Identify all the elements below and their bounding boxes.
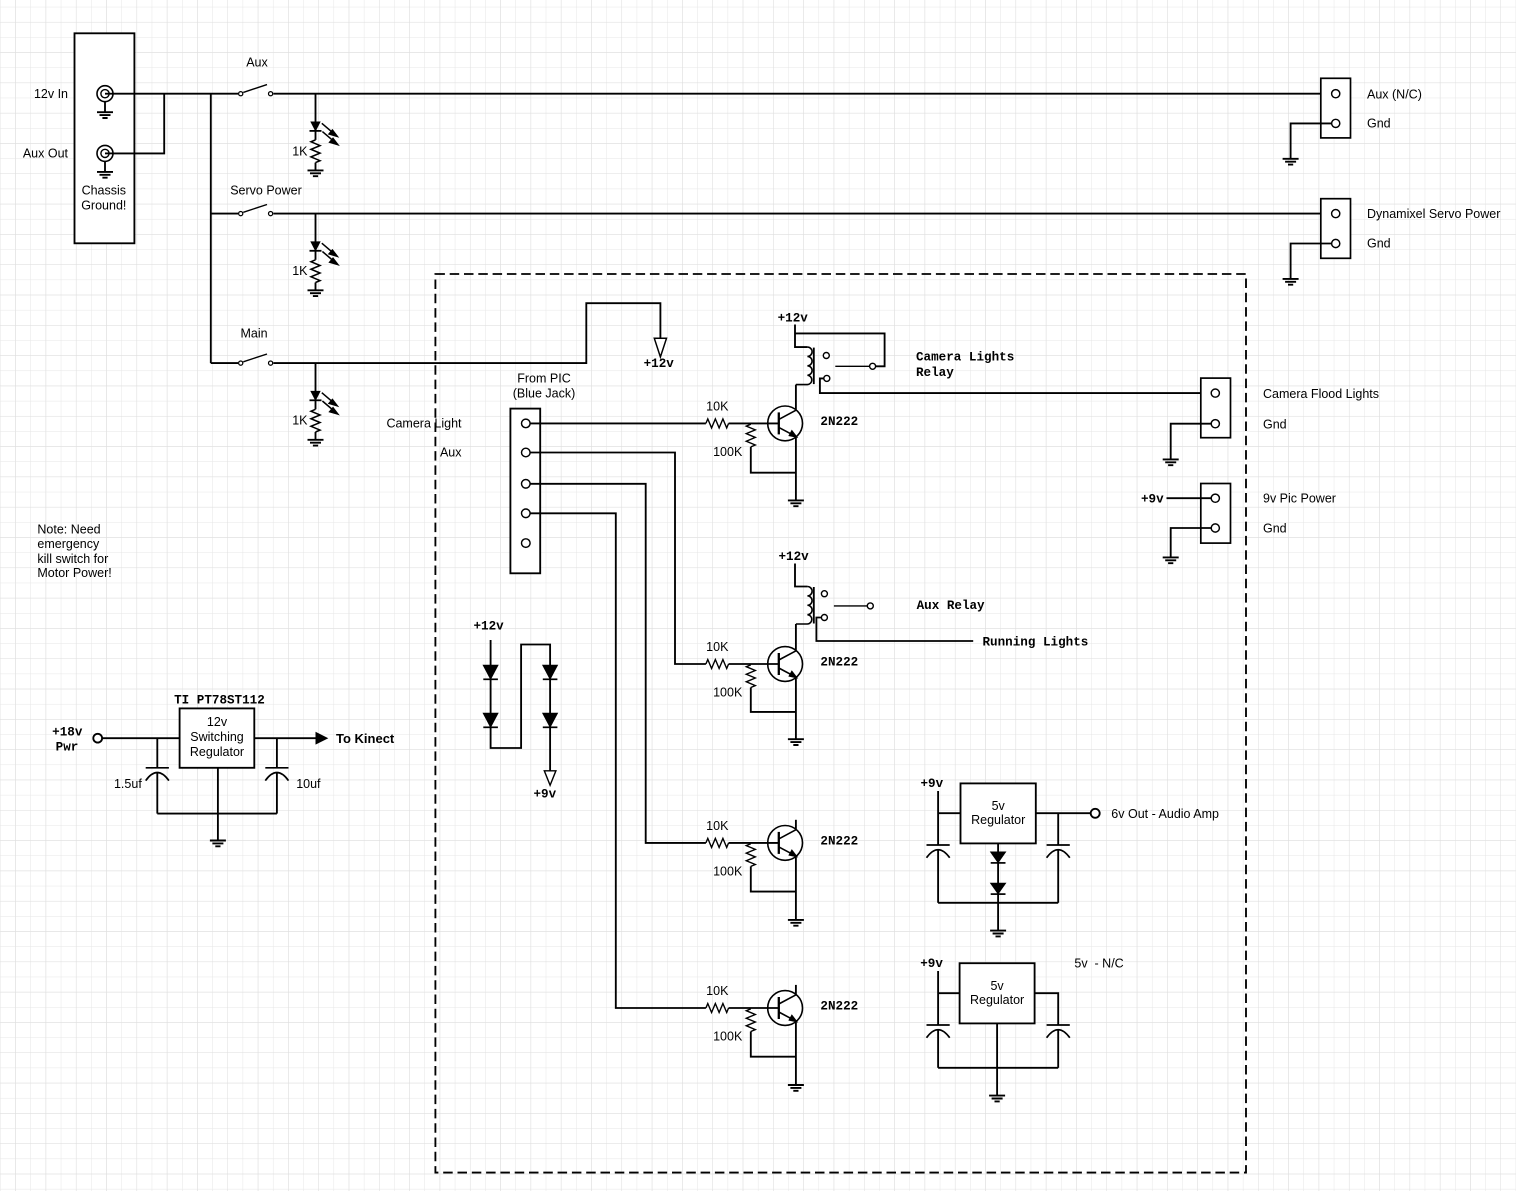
svg-text:100K: 100K — [713, 445, 743, 459]
capacitor C3 in — [927, 1025, 950, 1038]
wire 12v bus left — [112, 93, 238, 95]
svg-text:Ground!: Ground! — [81, 199, 126, 213]
wire U2 output — [1036, 812, 1091, 814]
wire R6 to Q3 emitter — [751, 866, 796, 891]
terminal +18v Pwr — [93, 734, 102, 743]
connector J2 Dynamixel — [1321, 199, 1351, 259]
dashed control box — [435, 274, 1246, 1173]
capacitor C4 out — [1047, 1025, 1070, 1038]
wire Q1 emitter to ground — [795, 437, 797, 500]
relay RLY2 NC contact — [821, 591, 827, 597]
diode D9 — [991, 883, 1006, 894]
svg-text:10K: 10K — [706, 984, 729, 998]
terminal 6v Out — [1091, 809, 1100, 818]
wire servo bus — [211, 213, 238, 215]
wire J3 gnd — [1171, 424, 1216, 460]
pin J2-2 — [1332, 239, 1340, 247]
wire stub Aux Out center — [105, 152, 113, 154]
svg-text:9v Pic Power: 9v Pic Power — [1263, 492, 1336, 506]
connector J1 Aux (N/C) — [1321, 78, 1351, 138]
regulator U1 box TI PT78ST112 — [180, 708, 255, 767]
wire J2 gnd — [1291, 244, 1336, 279]
resistor R6 100K — [746, 844, 755, 867]
relay RLY2 NO contact — [821, 615, 827, 621]
svg-text:+12v: +12v — [473, 619, 504, 633]
wire U2 gnd center — [997, 843, 999, 902]
relay RLY2 coil — [796, 587, 812, 625]
svg-text:10K: 10K — [706, 640, 729, 654]
ground (Aux Out) — [97, 172, 113, 178]
regulator U3 box — [960, 963, 1035, 1023]
resistor R7 10K — [706, 1004, 729, 1013]
wire U1 gnd center — [217, 768, 219, 841]
pin J4-1 — [1211, 494, 1219, 502]
chassis box — [75, 33, 135, 243]
connector 12v In — [97, 86, 113, 102]
svg-text:+12v: +12v — [778, 312, 809, 326]
svg-text:Gnd: Gnd — [1263, 522, 1287, 536]
connector J3 Camera Flood Lights — [1201, 378, 1231, 438]
svg-text:Chassis: Chassis — [82, 184, 126, 198]
svg-text:Camera Flood Lights: Camera Flood Lights — [1263, 387, 1379, 401]
svg-text:+9v: +9v — [1141, 492, 1164, 506]
pin J4-2 — [1211, 524, 1219, 532]
svg-text:To Kinect: To Kinect — [336, 731, 395, 746]
wire stub 12v In center — [105, 93, 113, 95]
wire J1 gnd — [1291, 123, 1336, 158]
svg-text:Gnd: Gnd — [1263, 417, 1287, 431]
svg-text:(Blue Jack): (Blue Jack) — [513, 386, 576, 400]
svg-text:TI PT78ST112: TI PT78ST112 — [174, 694, 265, 708]
wire J4 gnd — [1171, 528, 1216, 557]
svg-text:2N222: 2N222 — [820, 656, 858, 670]
LED D1 with 1K resistor — [315, 94, 317, 122]
svg-text:Switching: Switching — [190, 730, 244, 744]
wire U3 gnd rail — [938, 1067, 1058, 1069]
ground (J3) — [1163, 459, 1179, 465]
svg-text:kill switch for: kill switch for — [37, 552, 108, 566]
diode D5 — [483, 713, 498, 727]
svg-text:+9v: +9v — [920, 957, 943, 971]
wire main feed vertical — [210, 94, 212, 363]
svg-text:10K: 10K — [706, 399, 729, 413]
pin PIC-3 — [522, 480, 531, 489]
pin J1-2 — [1332, 119, 1340, 127]
pin PIC-4 — [522, 509, 531, 518]
relay RLY1 common feed — [795, 333, 885, 366]
svg-text:+12v: +12v — [644, 357, 675, 371]
wire Q3 emitter to ground — [795, 857, 797, 920]
ground (Q2) — [788, 739, 804, 745]
svg-text:Camera Lights: Camera Lights — [916, 350, 1014, 364]
relay RLY2 +12v feed — [795, 564, 807, 587]
connector Aux Out — [97, 145, 113, 161]
wire +9v to J4 — [1167, 497, 1216, 499]
wire Q1 base — [729, 422, 779, 424]
pin PIC-5 — [522, 539, 531, 548]
wire U3 output — [1035, 993, 1059, 1025]
regulator U3 +9v feed — [937, 971, 939, 1025]
connector PIC (Blue Jack) — [510, 409, 540, 574]
svg-text:100K: 100K — [713, 1030, 743, 1044]
svg-text:5v: 5v — [992, 799, 1006, 813]
svg-text:Servo Power: Servo Power — [230, 184, 302, 198]
diode D4 — [483, 665, 498, 679]
svg-text:+12v: +12v — [778, 550, 809, 564]
wire main bus — [211, 362, 238, 364]
switch Aux — [243, 85, 267, 93]
svg-text:Regulator: Regulator — [190, 745, 244, 759]
wire Q4 base — [729, 1007, 779, 1009]
wire R8 to Q4 emitter — [751, 1032, 796, 1057]
svg-text:Regulator: Regulator — [971, 813, 1025, 827]
svg-text:Aux Out: Aux Out — [23, 146, 69, 160]
ground (Q1) — [788, 500, 804, 506]
svg-text:Gnd: Gnd — [1367, 117, 1391, 131]
wire R2 to Q1 emitter — [751, 447, 796, 473]
wire 12v bus right of Aux switch — [273, 93, 1335, 95]
wire PIC pin3 to Q3 base — [526, 484, 706, 843]
resistor R4 100K — [746, 665, 755, 688]
connector J4 9v Pic Power — [1201, 484, 1231, 544]
diode D6 — [543, 665, 558, 679]
svg-text:5v: 5v — [990, 979, 1004, 993]
ground (U1) — [210, 841, 226, 847]
svg-text:6v Out - Audio Amp: 6v Out - Audio Amp — [1111, 807, 1219, 821]
pin J3-1 — [1211, 389, 1219, 397]
relay RLY1 armature bar — [813, 348, 815, 385]
pin J3-2 — [1211, 420, 1219, 428]
wire PIC pin1 to Q1 base — [526, 422, 706, 424]
wire U1 gnd rail — [157, 813, 277, 815]
svg-text:100K: 100K — [713, 686, 743, 700]
relay RLY2 common contact — [867, 603, 873, 609]
ground (Q4) — [788, 1085, 804, 1091]
transistor Q3 2N222 — [768, 826, 803, 861]
pin J2-1 — [1332, 210, 1340, 218]
wire aux out link — [112, 94, 164, 154]
svg-text:Running Lights: Running Lights — [983, 635, 1089, 649]
power arrow +9v — [544, 771, 556, 786]
ground (Q3) — [788, 920, 804, 926]
wire U3 input — [938, 992, 960, 994]
wire Q2 base — [729, 663, 779, 665]
svg-text:10K: 10K — [706, 819, 729, 833]
wire Q4 collector stub — [795, 985, 797, 995]
svg-text:From PIC: From PIC — [517, 371, 570, 385]
svg-text:100K: 100K — [713, 864, 743, 878]
transistor Q4 2N222 — [768, 991, 803, 1026]
capacitor C1 in — [927, 845, 950, 858]
svg-text:2N222: 2N222 — [820, 1000, 858, 1014]
relay RLY1 coil — [796, 347, 812, 385]
resistor R3 10K — [706, 660, 729, 669]
relay RLY2 armature bar — [813, 587, 815, 624]
pin PIC-2 — [522, 448, 531, 457]
transistor Q1 2N222 — [768, 406, 803, 441]
ground (J2) — [1283, 279, 1299, 285]
wire Q4 emitter to ground — [795, 1022, 797, 1085]
wire U3 gnd center — [996, 1023, 998, 1095]
svg-text:emergency: emergency — [37, 537, 100, 551]
ground (U3) — [989, 1096, 1005, 1102]
relay RLY1 +12v feed — [795, 325, 807, 348]
wire Q3 collector stub — [795, 820, 797, 830]
LED D2 with 1K resistor — [315, 214, 317, 242]
arrow To Kinect — [316, 733, 327, 744]
pin J1-1 — [1332, 90, 1340, 98]
LED D3 with 1K resistor — [315, 363, 317, 391]
svg-text:+18v: +18v — [52, 725, 83, 739]
svg-text:Aux Relay: Aux Relay — [917, 599, 985, 613]
wire U2 input — [938, 812, 960, 814]
ground (J4) — [1163, 557, 1179, 563]
svg-text:1K: 1K — [292, 264, 308, 278]
resistor R8 100K — [746, 1009, 755, 1032]
wire Q3 base — [729, 842, 779, 844]
wire Q1 collector to relay coil — [795, 385, 797, 410]
ground (U2) — [990, 931, 1006, 937]
wire U1 input — [102, 737, 180, 739]
pin PIC-1 — [522, 419, 531, 428]
wire PIC pin2 to Q2 base — [526, 453, 706, 665]
ground (12v In) — [97, 112, 113, 118]
svg-text:1.5uf: 1.5uf — [114, 777, 142, 791]
capacitor C5 1.5uf — [156, 738, 158, 768]
relay RLY1 lever — [835, 365, 869, 367]
svg-text:12v In: 12v In — [34, 87, 68, 101]
capacitor C6 10uf — [276, 738, 278, 768]
svg-text:Relay: Relay — [916, 366, 954, 380]
svg-text:Camera Light: Camera Light — [386, 416, 462, 430]
svg-text:Gnd: Gnd — [1367, 237, 1391, 251]
wire RLY1 NO to Camera Flood Lights — [820, 378, 1215, 393]
diode D7 — [543, 713, 558, 727]
svg-text:Dynamixel Servo Power: Dynamixel Servo Power — [1367, 207, 1500, 221]
svg-text:10uf: 10uf — [296, 777, 321, 791]
resistor R2 100K — [746, 424, 755, 447]
svg-text:+9v: +9v — [533, 787, 556, 801]
regulator U2 box — [961, 783, 1036, 843]
svg-text:Aux: Aux — [246, 56, 268, 70]
svg-text:Regulator: Regulator — [970, 993, 1024, 1007]
svg-text:1K: 1K — [292, 144, 308, 158]
transistor Q2 2N222 — [768, 647, 803, 682]
svg-text:1K: 1K — [292, 414, 308, 428]
wire U1 output — [254, 737, 316, 739]
power arrow +12v (main) — [654, 338, 666, 357]
svg-text:Note: Need: Note: Need — [37, 522, 100, 536]
switch Main — [243, 354, 267, 362]
wire PIC pin4 to Q4 base — [526, 513, 706, 1008]
regulator U2 +9v feed — [937, 791, 939, 845]
relay RLY2 lever — [834, 605, 867, 607]
wire RLY2 NO to Running Lights — [816, 618, 973, 642]
wire Q2 emitter to ground — [795, 678, 797, 740]
wire U2 gnd rail — [938, 902, 1058, 904]
relay RLY1 common contact — [870, 363, 876, 369]
svg-text:2N222: 2N222 — [820, 415, 858, 429]
wire Q2 collector to relay coil — [795, 624, 797, 650]
svg-text:12v: 12v — [207, 715, 228, 729]
diode D8 — [991, 852, 1006, 863]
svg-text:Aux (N/C): Aux (N/C) — [1367, 87, 1422, 101]
relay RLY1 NC contact — [823, 353, 829, 359]
svg-text:Aux: Aux — [440, 445, 462, 459]
svg-text:+9v: +9v — [920, 777, 943, 791]
svg-text:5v - N/C: 5v - N/C — [1074, 956, 1123, 970]
relay RLY1 NO contact — [824, 375, 830, 381]
capacitor C2 out — [1057, 813, 1059, 845]
wire R4 to Q2 emitter — [751, 688, 796, 712]
svg-text:Pwr: Pwr — [56, 741, 79, 755]
switch Servo Power — [243, 205, 267, 213]
svg-text:2N222: 2N222 — [820, 834, 858, 848]
resistor R5 10K — [706, 838, 729, 847]
wire diode chain left — [491, 640, 550, 771]
svg-text:Motor Power!: Motor Power! — [37, 566, 111, 580]
resistor R1 10K — [706, 419, 729, 428]
ground (J1) — [1283, 159, 1299, 165]
svg-text:Main: Main — [240, 327, 267, 341]
